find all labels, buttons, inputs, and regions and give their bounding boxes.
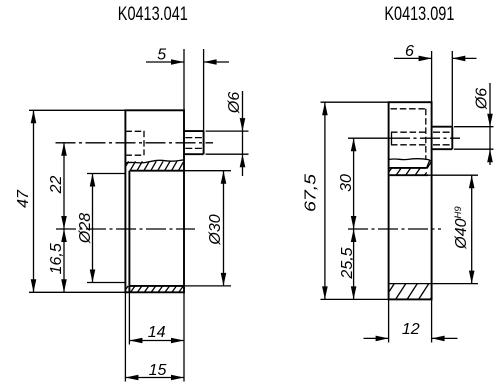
step line and chamfer right part <box>390 167 427 169</box>
svg-text:Ø6: Ø6 <box>226 92 243 114</box>
svg-text:22: 22 <box>48 176 65 195</box>
svg-text:16,5: 16,5 <box>48 243 65 274</box>
hatch bottom band left part <box>126 286 183 292</box>
dim diam 6 right <box>454 83 494 165</box>
dim 14 <box>129 292 184 381</box>
dim 22 <box>63 143 65 229</box>
hidden thread core lines right part <box>391 132 427 145</box>
svg-text:30: 30 <box>338 174 355 192</box>
hole centerline left part <box>56 142 214 144</box>
threaded stub left part <box>184 131 204 154</box>
hole centerline right part <box>348 137 390 139</box>
stub thread core lines right <box>433 132 452 145</box>
dim 5 stub length <box>146 49 229 131</box>
dim 16,5 <box>63 229 65 292</box>
dim 67,5 <box>321 102 389 299</box>
dim 15 <box>125 292 184 381</box>
hidden counterbore dashed box right part <box>391 109 426 159</box>
hatch top band left part <box>126 161 184 170</box>
bore bottom line right part <box>389 283 432 285</box>
svg-text:Ø6: Ø6 <box>474 88 491 110</box>
hatch bottom band right part <box>389 284 431 300</box>
dim 30 right <box>353 138 355 229</box>
threaded stub right part <box>432 127 453 150</box>
dim diam 40 H9 <box>428 175 478 283</box>
svg-text:6: 6 <box>405 43 414 60</box>
hatch top band right part <box>389 162 431 175</box>
wavy break line right part <box>389 159 432 162</box>
svg-text:14: 14 <box>148 324 166 341</box>
svg-text:Ø30: Ø30 <box>207 214 224 245</box>
svg-text:K0413.091: K0413.091 <box>384 4 454 25</box>
wavy break line top left part <box>125 160 184 163</box>
dim 47 <box>29 110 125 292</box>
dim diam 28 <box>87 174 125 283</box>
svg-text:Ø28: Ø28 <box>77 213 94 244</box>
dim diam 6 left <box>206 91 249 176</box>
thread hole bottom face right part <box>391 132 393 145</box>
main centerline left part <box>56 228 195 230</box>
svg-text:25,5: 25,5 <box>339 247 356 279</box>
svg-text:K0413.041: K0413.041 <box>118 4 188 25</box>
dim diam 30 <box>184 171 231 286</box>
svg-text:5: 5 <box>157 47 166 64</box>
svg-text:67,5: 67,5 <box>303 174 320 212</box>
dim 12 <box>364 299 458 342</box>
hidden thread hole dashed box left part <box>125 131 144 155</box>
dim 6 stub length <box>394 51 477 127</box>
svg-text:15: 15 <box>149 362 167 379</box>
body outline left part <box>125 110 184 292</box>
main centerline right part <box>348 228 441 230</box>
dim 25,5 <box>353 229 355 299</box>
stub thread core lines left <box>185 138 203 149</box>
svg-text:47: 47 <box>15 189 32 208</box>
svg-text:12: 12 <box>402 321 420 338</box>
bore top line right part <box>390 174 428 176</box>
body outline right part <box>389 102 432 299</box>
